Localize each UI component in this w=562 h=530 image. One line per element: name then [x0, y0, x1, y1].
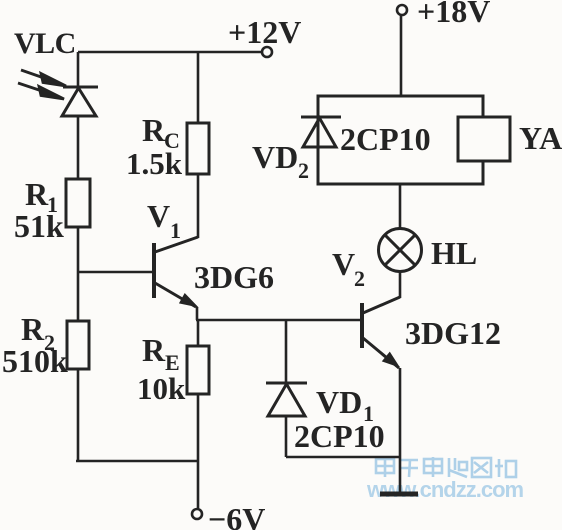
wire node to R2: [77, 272, 80, 321]
relay coil YA: [458, 117, 510, 161]
svg-text:VLC: VLC: [14, 27, 76, 60]
arrow emitter V1: [180, 295, 196, 307]
svg-text:VD: VD: [316, 384, 362, 420]
svg-text:51k: 51k: [14, 208, 64, 244]
wire R2 to bottom rail: [77, 369, 80, 461]
svg-text:www.cndzz.com: www.cndzz.com: [366, 477, 524, 502]
svg-text:+18V: +18V: [417, 0, 490, 29]
resistor RE: [187, 346, 209, 394]
wire R1 to base node: [77, 227, 80, 272]
wire VD1 bottom: [285, 416, 288, 457]
arrow emitter V2: [383, 353, 398, 366]
wire emitter V2 to ground: [399, 368, 402, 492]
svg-text:HL: HL: [431, 235, 477, 271]
photodiode VLC: [62, 87, 98, 116]
diode VD2: [301, 117, 341, 147]
svg-text:2: 2: [298, 158, 309, 183]
svg-text:2CP10: 2CP10: [340, 121, 431, 157]
wire VD1 to emitter V2: [286, 456, 400, 459]
wire base V1: [78, 271, 152, 274]
wire +12V rail: [78, 51, 262, 54]
terminal +12V: [262, 47, 272, 57]
lamp HL: [379, 229, 422, 272]
ground: [380, 492, 418, 497]
svg-text:1: 1: [170, 218, 181, 243]
terminal -6V: [192, 509, 202, 519]
wire RC to collector: [197, 174, 200, 238]
svg-text:+12V: +12V: [228, 14, 301, 50]
terminal +18V: [397, 5, 407, 15]
light arrows: [18, 70, 66, 99]
svg-text:10k: 10k: [137, 371, 186, 406]
resistor RC: [187, 123, 209, 174]
svg-text:2CP10: 2CP10: [294, 418, 385, 454]
wire RE top: [197, 320, 200, 346]
svg-text:1.5k: 1.5k: [126, 146, 183, 181]
resistor R2: [67, 321, 89, 369]
watermark site name: [376, 457, 516, 477]
resistor R1: [66, 179, 90, 227]
wire to -6V: [197, 461, 200, 509]
svg-text:3DG12: 3DG12: [405, 315, 501, 351]
wire RC top: [197, 52, 200, 123]
relay box: [318, 96, 483, 184]
wire photodiode to R1: [77, 116, 80, 179]
svg-text:R: R: [25, 176, 49, 212]
svg-text:R: R: [142, 332, 166, 368]
diode VD1: [266, 383, 307, 416]
transistor V1: [154, 237, 198, 307]
wire bottom left rail: [76, 460, 198, 463]
wire lamp top: [399, 184, 402, 229]
wire collector V2 to lamp: [399, 272, 402, 298]
svg-text:YA: YA: [519, 120, 562, 156]
wire +18V down: [400, 15, 403, 96]
wire emitter V1 down: [196, 307, 199, 320]
svg-text:R: R: [21, 311, 45, 347]
svg-text:510k: 510k: [2, 343, 68, 379]
svg-text:3DG6: 3DG6: [194, 259, 274, 295]
wire photodiode top: [77, 52, 80, 87]
wire emitter node line: [196, 319, 362, 322]
wire VD1 top: [285, 320, 288, 383]
svg-text:VD: VD: [252, 139, 298, 175]
transistor V2: [362, 297, 400, 368]
wire RE bottom: [197, 394, 200, 461]
svg-text:R: R: [142, 112, 166, 148]
svg-text:V: V: [332, 246, 355, 282]
svg-text:V: V: [147, 198, 170, 234]
svg-text:−6V: −6V: [208, 501, 265, 530]
svg-text:2: 2: [354, 266, 365, 291]
